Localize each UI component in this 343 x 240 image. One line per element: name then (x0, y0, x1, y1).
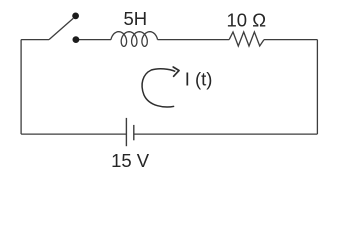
switch S1 arm (49, 18, 73, 39)
svg-text:I (t): I (t) (185, 68, 213, 89)
wire top segment B (switch to inductor) (76, 39, 111, 41)
svg-text:5H: 5H (123, 8, 147, 29)
wire top segment D (resistor to corner) (264, 39, 317, 41)
wire top segment C (inductor to resistor) (158, 39, 230, 41)
current loop arrowhead (173, 67, 179, 76)
wire right vertical (316, 40, 318, 135)
wire bottom left segment (21, 133, 126, 135)
wire left vertical (20, 40, 22, 135)
svg-text:15 V: 15 V (111, 150, 150, 170)
wire bottom right segment (134, 133, 318, 135)
wire top segment A (corner to switch) (21, 39, 49, 41)
battery V1 left plate (long, positive) (125, 118, 127, 146)
battery V1 right plate (short, negative) (133, 125, 135, 140)
svg-text:10 Ω: 10 Ω (227, 10, 267, 31)
current loop arrow arc (142, 69, 175, 107)
resistor R1 zigzag 10 ohm (229, 32, 264, 46)
switch contact dot lower (73, 36, 80, 43)
inductor L1 coil 5H (111, 32, 158, 47)
switch contact dot upper (72, 13, 79, 20)
